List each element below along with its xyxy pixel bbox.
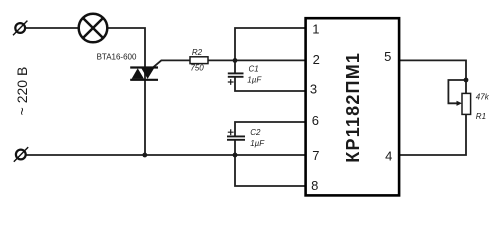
- svg-text:1: 1: [312, 22, 319, 37]
- svg-text:C2: C2: [250, 128, 261, 137]
- svg-text:4: 4: [385, 148, 392, 163]
- svg-text:5: 5: [384, 49, 391, 64]
- svg-text:7: 7: [312, 148, 319, 163]
- svg-text:BTA16-600: BTA16-600: [97, 52, 137, 61]
- svg-text:8: 8: [311, 178, 318, 193]
- svg-text:R1: R1: [476, 112, 486, 121]
- svg-text:~ 220 В: ~ 220 В: [14, 67, 30, 116]
- svg-text:R2: R2: [192, 48, 203, 57]
- svg-text:1µF: 1µF: [247, 75, 262, 84]
- svg-text:КР1182ПМ1: КР1182ПМ1: [343, 52, 363, 163]
- svg-text:3: 3: [310, 82, 317, 97]
- svg-text:1µF: 1µF: [250, 139, 265, 148]
- svg-text:6: 6: [312, 113, 319, 128]
- svg-text:47k: 47k: [476, 93, 490, 102]
- svg-text:750: 750: [190, 63, 204, 72]
- svg-text:2: 2: [313, 52, 320, 67]
- svg-text:C1: C1: [249, 65, 259, 74]
